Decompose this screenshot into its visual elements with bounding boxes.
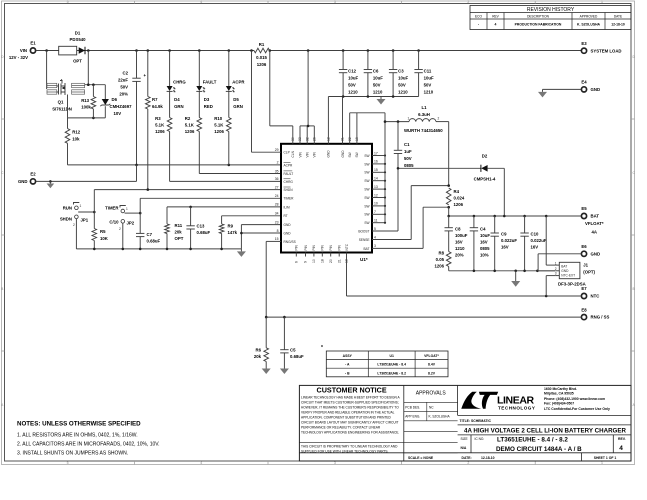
svg-text:(OPT): (OPT) bbox=[583, 270, 595, 275]
svg-text:CMPSH1-4: CMPSH1-4 bbox=[474, 177, 496, 182]
svg-text:12: 12 bbox=[374, 193, 378, 197]
svg-text:SIZE: SIZE bbox=[461, 437, 468, 441]
svg-text:VFLOAT*: VFLOAT* bbox=[585, 221, 604, 226]
node CLN tap bbox=[269, 49, 272, 52]
svg-text:Fax: (408)434-0507: Fax: (408)434-0507 bbox=[544, 401, 574, 405]
node VIN pins tap bbox=[307, 49, 310, 52]
pin 33 VIN top bbox=[298, 137, 302, 157]
svg-text:ASSY: ASSY bbox=[343, 354, 353, 358]
svg-text:C12: C12 bbox=[348, 69, 356, 74]
svg-text:29: 29 bbox=[275, 148, 279, 152]
svg-text:CUSTOMER NOTICE: CUSTOMER NOTICE bbox=[317, 386, 387, 395]
svg-text:R12: R12 bbox=[72, 130, 80, 135]
svg-text:3. INSTALL SHUNTS ON JUMPERS A: 3. INSTALL SHUNTS ON JUMPERS AS SHOWN. bbox=[17, 451, 128, 457]
svg-text:K. SZOLUSHA: K. SZOLUSHA bbox=[429, 415, 451, 419]
jumper JP2 TIMER/C10 bbox=[105, 206, 135, 232]
node D4 tap bbox=[168, 49, 171, 52]
node BAT rail bbox=[545, 215, 548, 218]
pin 29 CLP bbox=[275, 148, 290, 155]
svg-text:C6: C6 bbox=[373, 69, 379, 74]
svg-text:22uF: 22uF bbox=[118, 78, 128, 83]
pin 36 CHRG bbox=[275, 177, 294, 184]
svg-text:16V: 16V bbox=[455, 240, 463, 245]
pin 14 SW bbox=[364, 177, 386, 184]
wire E2 to ground line bbox=[36, 165, 137, 182]
svg-text:50V: 50V bbox=[120, 85, 128, 90]
svg-text:JP2: JP2 bbox=[127, 221, 135, 226]
svg-text:TECHNOLOGY APPLICATIONS ENGINE: TECHNOLOGY APPLICATIONS ENGINEERING FOR … bbox=[301, 431, 399, 435]
node VIN bar bbox=[307, 125, 310, 128]
svg-text:GND: GND bbox=[591, 87, 601, 92]
pin 21 PIN bottom bbox=[337, 244, 341, 263]
svg-text:4A HIGH VOLTAGE 2 CELL LI-ION: 4A HIGH VOLTAGE 2 CELL LI-ION BATTERY CH… bbox=[464, 427, 626, 434]
svg-text:10k: 10k bbox=[72, 137, 80, 142]
svg-text:5: 5 bbox=[374, 227, 376, 231]
ground symbol C5 bbox=[283, 366, 285, 369]
node BAT rail bbox=[523, 215, 526, 218]
node C2 tap bbox=[135, 49, 138, 52]
svg-text:PIN: PIN bbox=[304, 244, 308, 250]
svg-text:D2: D2 bbox=[482, 154, 488, 159]
svg-text:N/A: N/A bbox=[461, 446, 467, 450]
svg-text:APP ENG.: APP ENG. bbox=[405, 415, 420, 419]
svg-text:LT3651EUHE - 8.2: LT3651EUHE - 8.2 bbox=[377, 371, 406, 375]
svg-text:36: 36 bbox=[275, 177, 279, 181]
wire GND pins risers bbox=[328, 97, 342, 144]
svg-text:13: 13 bbox=[374, 185, 378, 189]
svg-text:GRN: GRN bbox=[174, 104, 184, 109]
pin 10 SW bbox=[364, 202, 386, 209]
svg-text:3: 3 bbox=[374, 244, 376, 248]
svg-text:24: 24 bbox=[275, 194, 279, 198]
svg-text:4: 4 bbox=[619, 445, 623, 452]
LED D3 RED FAULT bbox=[196, 51, 216, 110]
svg-text:GND: GND bbox=[561, 269, 569, 273]
svg-text:DESCRIPTION: DESCRIPTION bbox=[527, 14, 549, 18]
svg-text:VERIFY PROPER AND RELIABLE OPE: VERIFY PROPER AND RELIABLE OPERATION IN … bbox=[301, 410, 395, 414]
node ground rail bbox=[220, 248, 223, 251]
svg-text:12-18-10: 12-18-10 bbox=[481, 456, 495, 460]
capacitor C13 0.68uF bbox=[186, 207, 210, 249]
svg-text:18: 18 bbox=[321, 259, 325, 263]
svg-text:2: 2 bbox=[438, 117, 440, 121]
svg-text:CHRG: CHRG bbox=[284, 180, 294, 184]
terminal E3 SYSTEM LOAD bbox=[581, 41, 621, 53]
wire ILIM net bbox=[167, 207, 281, 224]
svg-text:- B: - B bbox=[345, 371, 350, 375]
svg-text:R7: R7 bbox=[152, 97, 158, 102]
svg-text:20: 20 bbox=[329, 259, 333, 263]
svg-text:BOOST: BOOST bbox=[358, 229, 369, 233]
svg-text:1630 McCarthy Blvd.: 1630 McCarthy Blvd. bbox=[544, 387, 577, 391]
svg-text:NTC-EXT: NTC-EXT bbox=[561, 273, 575, 277]
svg-text:TECHNOLOGY: TECHNOLOGY bbox=[498, 406, 535, 411]
svg-text:R3: R3 bbox=[155, 116, 161, 121]
capacitor C12 10uF bbox=[339, 51, 359, 97]
svg-text:11: 11 bbox=[374, 219, 378, 223]
svg-text:5.1K: 5.1K bbox=[214, 123, 224, 128]
svg-text:0805: 0805 bbox=[404, 163, 414, 168]
wire SW bus bbox=[384, 113, 386, 223]
svg-text:1: 1 bbox=[80, 204, 82, 208]
node JP2 tap bbox=[139, 212, 142, 215]
svg-text:TIMER: TIMER bbox=[284, 197, 295, 201]
assembly options table bbox=[321, 345, 448, 377]
terminal E8 RNG/SS bbox=[581, 307, 609, 319]
svg-text:3: 3 bbox=[334, 0, 336, 4]
capacitor C7 0.68uF bbox=[136, 232, 160, 249]
title block bbox=[299, 385, 631, 461]
ground symbol E4 bbox=[542, 89, 544, 92]
svg-text:2. ALL CAPACITORS ARE IN MICRO: 2. ALL CAPACITORS ARE IN MICROFARADS, 04… bbox=[17, 442, 160, 448]
node ground rail bbox=[93, 248, 96, 251]
notes text bbox=[17, 421, 160, 457]
svg-text:VIN: VIN bbox=[306, 151, 310, 157]
svg-text:RNG / SS: RNG / SS bbox=[591, 315, 610, 320]
node ground rail bbox=[122, 248, 125, 251]
node R6 junction bbox=[265, 316, 268, 319]
svg-text:DATE: DATE bbox=[614, 14, 622, 18]
svg-text:R1: R1 bbox=[259, 42, 265, 47]
node R7 SHDN junction bbox=[147, 188, 150, 191]
pin 23 GND bbox=[275, 220, 292, 227]
wire D4 chain to CHRG pin bbox=[170, 132, 281, 182]
svg-text:10%: 10% bbox=[480, 253, 489, 258]
svg-text:SW: SW bbox=[355, 152, 359, 157]
resistor R13 100k bbox=[81, 85, 96, 118]
node VIN-Q1 bbox=[45, 49, 48, 52]
pin 15 SW bbox=[364, 168, 386, 175]
svg-text:10K: 10K bbox=[100, 236, 109, 241]
resistor R1 0.015 bbox=[254, 42, 270, 67]
svg-text:2: 2 bbox=[73, 223, 75, 227]
svg-text:C10: C10 bbox=[531, 232, 539, 237]
capacitor C10 0.022uF bbox=[520, 216, 546, 271]
Linear Technology logo bbox=[461, 387, 610, 411]
svg-text:OPT: OPT bbox=[175, 236, 184, 241]
svg-text:50V: 50V bbox=[398, 83, 406, 88]
svg-text:3: 3 bbox=[555, 272, 557, 276]
ground symbol input caps bbox=[380, 97, 382, 100]
node BAT rail bbox=[447, 215, 450, 218]
svg-text:GND: GND bbox=[284, 223, 292, 227]
svg-text:SHEET 1 OF 1: SHEET 1 OF 1 bbox=[594, 456, 617, 460]
capacitor C2 22uF bbox=[118, 51, 147, 165]
svg-text:U1: U1 bbox=[390, 354, 394, 358]
node output gnd rail bbox=[493, 270, 496, 273]
wire E6 to ground rail bbox=[538, 254, 581, 271]
svg-text:SW: SW bbox=[364, 213, 369, 217]
svg-text:1: 1 bbox=[126, 207, 128, 211]
pin 24 TIMER bbox=[275, 194, 294, 201]
op-amp U1 LT3651EUHE bbox=[281, 144, 372, 262]
svg-text:SW: SW bbox=[364, 221, 369, 225]
wire J1 NTC-EXT bbox=[546, 276, 555, 296]
svg-text:0.022uF: 0.022uF bbox=[531, 238, 547, 243]
wire E4 ground bbox=[543, 88, 582, 90]
svg-text:C8: C8 bbox=[455, 227, 461, 232]
node NTC J1 junction bbox=[545, 295, 548, 298]
svg-text:CIRCUIT THAT MEETS CUSTOMER-SU: CIRCUIT THAT MEETS CUSTOMER-SUPPLIED SPE… bbox=[301, 400, 399, 404]
svg-text:Q1: Q1 bbox=[58, 100, 64, 105]
capacitor C8 100uF bbox=[445, 216, 468, 258]
svg-text:2: 2 bbox=[467, 461, 469, 465]
svg-text:C2: C2 bbox=[123, 71, 129, 76]
svg-text:ILIM: ILIM bbox=[284, 205, 291, 209]
svg-text:WURTH 744314650: WURTH 744314650 bbox=[404, 128, 443, 133]
svg-text:SW: SW bbox=[348, 152, 352, 157]
wire Q1 gate bbox=[67, 95, 69, 118]
wire BAT output rail bbox=[449, 215, 582, 217]
svg-text:15: 15 bbox=[374, 168, 378, 172]
svg-text:10uF: 10uF bbox=[424, 76, 434, 81]
pin 17 SW bbox=[364, 151, 386, 158]
svg-text:1: 1 bbox=[601, 461, 603, 465]
svg-text:R10: R10 bbox=[214, 116, 222, 121]
svg-text:5.1K: 5.1K bbox=[185, 123, 195, 128]
transistor Q1 SI7611DN bbox=[47, 51, 89, 112]
svg-text:RED: RED bbox=[204, 104, 213, 109]
svg-text:REVISION HISTORY: REVISION HISTORY bbox=[527, 7, 575, 13]
svg-text:R9: R9 bbox=[228, 224, 234, 229]
resistor R4 0.024 sense bbox=[446, 188, 464, 207]
node GND rail corner bbox=[240, 232, 243, 235]
svg-text:Milpitas, CA 95035: Milpitas, CA 95035 bbox=[544, 392, 574, 396]
LED D4 GRN CHRG bbox=[167, 51, 187, 110]
pin 13 SW bbox=[364, 185, 386, 192]
zener diode D6 CMHZ4697 bbox=[100, 85, 132, 118]
svg-text:7: 7 bbox=[374, 210, 376, 214]
svg-text:SHDN: SHDN bbox=[60, 217, 72, 222]
svg-text:1206: 1206 bbox=[257, 62, 267, 67]
pin 22 SW top bbox=[348, 137, 352, 157]
pin 10 PIN bottom bbox=[312, 244, 316, 263]
svg-text:20%: 20% bbox=[455, 253, 464, 258]
terminal E1 VIN bbox=[9, 41, 36, 60]
svg-text:D1: D1 bbox=[75, 31, 81, 36]
svg-text:CLN: CLN bbox=[291, 150, 295, 157]
pin 6 PIN bottom bbox=[295, 244, 299, 263]
resistor R11 20k OPT bbox=[165, 223, 184, 249]
svg-text:IC NO.: IC NO. bbox=[475, 437, 485, 441]
capacitor C11 10uF bbox=[414, 51, 434, 97]
svg-text:R8: R8 bbox=[439, 251, 445, 256]
terminal E2 GND bbox=[18, 172, 36, 184]
svg-text:ECO: ECO bbox=[475, 14, 482, 18]
pin 31 GND top bbox=[341, 137, 345, 157]
capacitor C9 0.022uF bbox=[491, 216, 518, 271]
svg-text:R13: R13 bbox=[81, 98, 89, 103]
ground symbol R6 bbox=[265, 366, 267, 369]
svg-text:NOTES: UNLESS OTHERWISE SPECI: NOTES: UNLESS OTHERWISE SPECIFIED bbox=[17, 421, 141, 428]
resistor R10 5.1K bbox=[214, 91, 231, 134]
node C1 tap bbox=[397, 120, 400, 123]
svg-text:SW: SW bbox=[364, 188, 369, 192]
wire R4 to output rail bbox=[448, 207, 450, 216]
node C5 junction bbox=[283, 316, 286, 319]
svg-text:C1: C1 bbox=[404, 142, 410, 147]
svg-text:E3: E3 bbox=[581, 41, 587, 46]
svg-text:27: 27 bbox=[275, 185, 279, 189]
svg-text:10: 10 bbox=[374, 202, 378, 206]
wire CLP net bbox=[252, 51, 282, 153]
svg-text:SYSTEM LOAD: SYSTEM LOAD bbox=[591, 48, 622, 53]
pin 18 PIN bottom bbox=[321, 244, 325, 263]
node D5 tap bbox=[228, 49, 231, 52]
resistor R12 10k bbox=[65, 118, 81, 165]
svg-text:1uF: 1uF bbox=[404, 149, 412, 154]
svg-text:1210: 1210 bbox=[424, 90, 434, 95]
svg-text:L1: L1 bbox=[421, 105, 427, 110]
capacitor C5 0.68uF bbox=[280, 317, 304, 366]
svg-text:- A: - A bbox=[345, 363, 350, 367]
svg-text:21: 21 bbox=[337, 259, 341, 263]
svg-text:DEMO CIRCUIT 1484A - A / B: DEMO CIRCUIT 1484A - A / B bbox=[496, 446, 582, 453]
svg-text:28: 28 bbox=[275, 203, 279, 207]
resistor R3 5.1K bbox=[155, 91, 172, 134]
wire BAT net bbox=[372, 207, 449, 248]
wire SW top bar bbox=[350, 113, 385, 144]
svg-text:Phone: (408)432-1900 www.line: Phone: (408)432-1900 www.linear.com bbox=[544, 397, 605, 401]
svg-text:LTC Confidential-For Customer: LTC Confidential-For Customer Use Only bbox=[544, 407, 610, 411]
capacitor C1 1uF boost bbox=[394, 122, 414, 231]
wire L1 right to R4 bbox=[436, 122, 449, 186]
svg-text:GND: GND bbox=[341, 150, 345, 158]
pin 32 VIN top bbox=[305, 137, 309, 157]
node ground rail bbox=[189, 248, 192, 251]
svg-text:E8: E8 bbox=[581, 307, 587, 312]
svg-text:4: 4 bbox=[200, 461, 202, 465]
svg-text:RUN: RUN bbox=[63, 206, 72, 211]
svg-text:SW: SW bbox=[364, 154, 369, 158]
svg-text:E7: E7 bbox=[581, 286, 587, 291]
svg-text:R2: R2 bbox=[185, 116, 191, 121]
wire TIMER net bbox=[140, 198, 281, 233]
svg-text:20k: 20k bbox=[254, 354, 262, 359]
svg-text:RT: RT bbox=[284, 214, 288, 218]
svg-text:E5: E5 bbox=[581, 206, 587, 211]
node C11 tap bbox=[417, 49, 420, 52]
capacitor C6 10uF bbox=[364, 51, 384, 97]
svg-text:*: * bbox=[321, 345, 323, 351]
svg-text:12-18-10: 12-18-10 bbox=[611, 23, 625, 27]
svg-text:SW: SW bbox=[364, 204, 369, 208]
wire gate line B bbox=[68, 117, 106, 119]
pin 8 GND bbox=[277, 229, 292, 236]
pin 27 SHDN bbox=[275, 185, 294, 192]
svg-text:BAT: BAT bbox=[591, 214, 600, 219]
svg-text:SHDN: SHDN bbox=[284, 188, 294, 192]
svg-text:4: 4 bbox=[200, 0, 202, 4]
wire D5 chain to GND line bbox=[228, 132, 230, 165]
svg-text:SW: SW bbox=[364, 196, 369, 200]
svg-text:100k: 100k bbox=[81, 105, 91, 110]
node D5 chain junction bbox=[228, 164, 231, 167]
pin 28 ILIM bbox=[275, 203, 290, 210]
pin 20 PIN bottom bbox=[329, 244, 333, 263]
svg-text:C3: C3 bbox=[398, 69, 404, 74]
svg-text:CIRCUIT BOARD LAYOUT MAY SIGNI: CIRCUIT BOARD LAYOUT MAY SIGNIFICANTLY A… bbox=[301, 421, 399, 425]
svg-text:NTC: NTC bbox=[345, 243, 349, 250]
resistor R2 5.1K bbox=[185, 91, 202, 134]
svg-text:50V: 50V bbox=[404, 156, 412, 161]
node BAT rail bbox=[493, 215, 496, 218]
wire SENSE net bbox=[372, 186, 449, 240]
terminal E5 BAT bbox=[581, 206, 603, 234]
svg-text:20k: 20k bbox=[175, 230, 183, 235]
svg-text:PDS540: PDS540 bbox=[69, 37, 86, 42]
svg-text:PIN: PIN bbox=[295, 244, 299, 250]
svg-text:-: - bbox=[478, 23, 479, 27]
resistor R6 20k bbox=[254, 317, 269, 366]
connector J1 DF3-3P-2DSA bbox=[555, 261, 596, 286]
svg-text:THIS CIRCUIT IS PROPRIETARY TO: THIS CIRCUIT IS PROPRIETARY TO LINEAR TE… bbox=[301, 445, 398, 449]
svg-text:GND: GND bbox=[284, 231, 292, 235]
pin 16 SW bbox=[364, 160, 386, 167]
svg-text:6.3uH: 6.3uH bbox=[418, 112, 430, 117]
node output gnd rail bbox=[514, 270, 517, 273]
node cap gnd rail bbox=[392, 95, 395, 98]
svg-text:VFLOAT*: VFLOAT* bbox=[424, 354, 439, 358]
svg-text:VIN: VIN bbox=[298, 151, 302, 157]
node output gnd rail bbox=[523, 270, 526, 273]
svg-text:TIMER: TIMER bbox=[105, 206, 119, 211]
svg-text:DF3-3P-2DSA: DF3-3P-2DSA bbox=[558, 281, 586, 286]
svg-text:LT3651EUHE - 8.4 / - 8.2: LT3651EUHE - 8.4 / - 8.2 bbox=[497, 436, 568, 443]
svg-text:D6: D6 bbox=[112, 97, 118, 102]
wire BOOST pin bbox=[372, 230, 398, 232]
svg-text:TITLE: SCHEMATIC: TITLE: SCHEMATIC bbox=[460, 419, 492, 423]
node C3 tap bbox=[392, 49, 395, 52]
svg-text:NC: NC bbox=[429, 405, 434, 409]
svg-text:DATE:: DATE: bbox=[462, 456, 472, 460]
node D3 tap bbox=[198, 49, 201, 52]
svg-text:D5: D5 bbox=[233, 97, 239, 102]
svg-text:GRN: GRN bbox=[233, 104, 243, 109]
svg-text:1210: 1210 bbox=[398, 90, 408, 95]
svg-text:8.2V: 8.2V bbox=[428, 371, 436, 375]
svg-text:10V: 10V bbox=[114, 111, 122, 116]
svg-text:0.024: 0.024 bbox=[454, 196, 465, 201]
svg-text:64.9k: 64.9k bbox=[152, 104, 163, 109]
pin 13 NTC bottom bbox=[345, 243, 349, 263]
svg-text:APPROVALS: APPROVALS bbox=[416, 391, 447, 397]
pin 2 ACPR bbox=[277, 161, 293, 168]
svg-text:50V: 50V bbox=[373, 83, 381, 88]
wire output ground rail bbox=[449, 270, 555, 272]
svg-text:1. ALL RESISTORS ARE IN OHMS,: 1. ALL RESISTORS ARE IN OHMS, 0402, 1%, … bbox=[17, 433, 138, 439]
node BAT rail bbox=[473, 215, 476, 218]
pin 11 SW bbox=[364, 219, 386, 226]
svg-text:C5: C5 bbox=[290, 348, 296, 353]
svg-text:0.68uF: 0.68uF bbox=[147, 239, 161, 244]
inductor L1 6.3uH bbox=[404, 105, 443, 133]
node E2 ground stub bbox=[49, 180, 52, 183]
svg-text:E1: E1 bbox=[30, 41, 36, 46]
terminal E4 GND bbox=[581, 80, 600, 92]
svg-text:C13: C13 bbox=[197, 224, 205, 229]
svg-text:0805: 0805 bbox=[480, 246, 490, 251]
svg-text:1206: 1206 bbox=[434, 264, 444, 269]
title text rows bbox=[299, 415, 631, 461]
node C6 tap bbox=[367, 49, 370, 52]
svg-text:C9: C9 bbox=[501, 232, 507, 237]
node R7 tap bbox=[147, 49, 150, 52]
svg-text:FAULT: FAULT bbox=[203, 80, 217, 85]
approvals box bbox=[404, 391, 458, 461]
svg-text:E6: E6 bbox=[581, 244, 587, 249]
svg-text:1210: 1210 bbox=[455, 246, 465, 251]
